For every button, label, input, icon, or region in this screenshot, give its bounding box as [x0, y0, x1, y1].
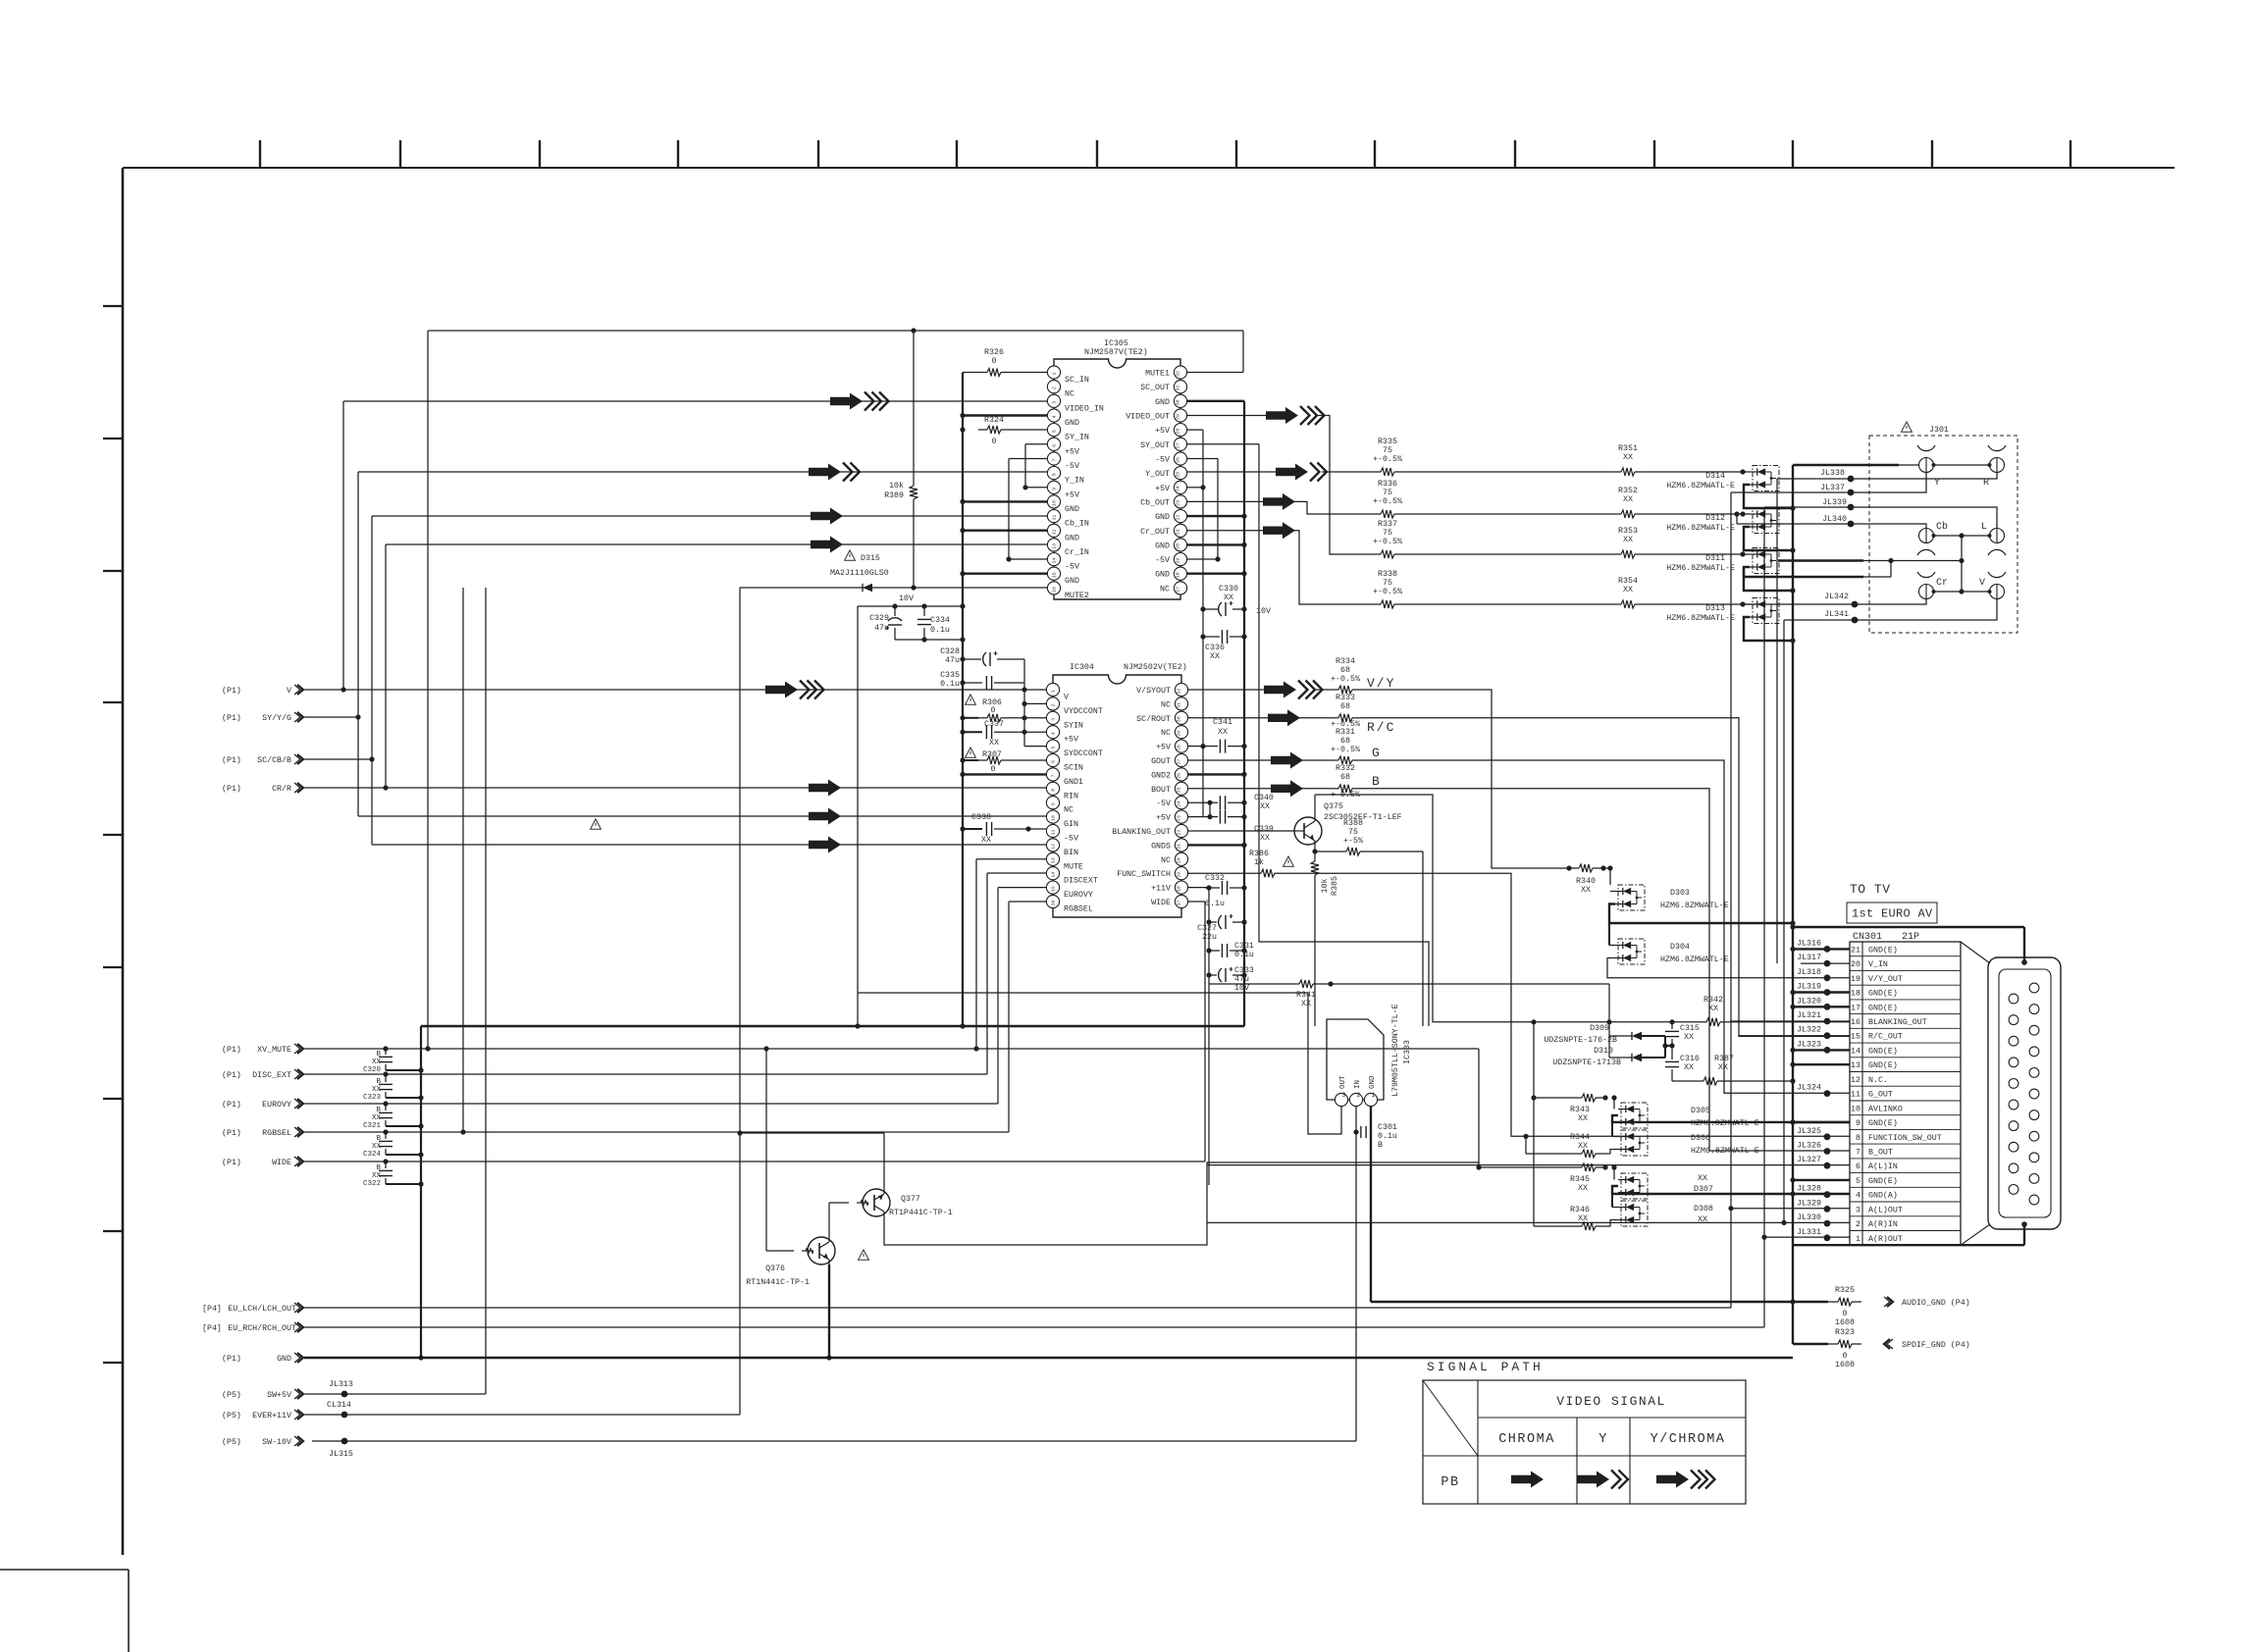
svg-text:V: V	[1064, 694, 1069, 702]
svg-text:Cr_IN: Cr_IN	[1065, 548, 1089, 557]
svg-text:-5V: -5V	[1155, 556, 1170, 565]
svg-text:75: 75	[1383, 489, 1392, 497]
wire pin5 stub	[1024, 746, 1046, 748]
svg-text:15: 15	[1851, 1033, 1860, 1042]
wire to Q377 emitter	[740, 1132, 884, 1134]
svg-text:GND: GND	[1155, 398, 1170, 407]
wire A(L)IN row	[1207, 1164, 1850, 1166]
svg-text:0: 0	[992, 357, 997, 366]
svg-text:L79M05TLL-SONY-TL-E: L79M05TLL-SONY-TL-E	[1391, 1004, 1400, 1097]
resistor R351 XX	[1611, 471, 1621, 473]
svg-text:24: 24	[1176, 486, 1181, 491]
wire IC303 GND	[1370, 1107, 1372, 1302]
wire pin25 Y_OUT	[1187, 471, 1276, 473]
svg-text:JL326: JL326	[1797, 1142, 1821, 1151]
wire pin26 -5V	[1187, 458, 1218, 460]
node JL324	[1824, 1090, 1831, 1097]
node JL317	[1824, 960, 1831, 967]
svg-text:D314: D314	[1705, 472, 1725, 481]
svg-text:R346: R346	[1570, 1206, 1590, 1214]
svg-text:0: 0	[1843, 1352, 1848, 1361]
svg-text:R325: R325	[1835, 1286, 1855, 1295]
resistor R388 75	[1315, 851, 1336, 852]
svg-text:(P1): (P1)	[222, 1070, 241, 1080]
svg-text:C330: C330	[1219, 585, 1238, 594]
svg-text:68: 68	[1340, 737, 1350, 746]
port SPDIF_GND (P4)	[1887, 1339, 1893, 1349]
wire G cont	[1299, 759, 1329, 761]
svg-text:6: 6	[1856, 1162, 1860, 1171]
svg-text:B: B	[376, 1078, 381, 1086]
svg-text:MA2J1110GLS0: MA2J1110GLS0	[830, 569, 889, 578]
node CL314	[341, 1412, 348, 1419]
svg-text:R342: R342	[1703, 996, 1723, 1005]
svg-text:V/Y: V/Y	[1367, 676, 1395, 691]
node JL340 tap	[1734, 511, 1739, 516]
wire R340 out	[1602, 867, 1610, 869]
wire pin24 -5V stub	[1187, 801, 1210, 803]
node R345 feed	[1476, 1164, 1481, 1169]
wire D311 top	[1743, 553, 1750, 555]
svg-text:SPDIF_GND (P4): SPDIF_GND (P4)	[1902, 1340, 1970, 1350]
svg-text:16: 16	[1051, 901, 1057, 906]
svg-text:+11V: +11V	[1151, 885, 1171, 894]
wire R343 to D305	[1613, 1098, 1615, 1110]
svg-text:NC: NC	[1160, 585, 1170, 594]
svg-text:75: 75	[1348, 828, 1358, 837]
svg-text:1k: 1k	[1254, 857, 1264, 867]
arrow video out	[1266, 407, 1298, 424]
svg-text:68: 68	[1340, 773, 1350, 782]
wire MUTE1 riser	[1242, 331, 1244, 373]
node JL325	[1824, 1133, 1831, 1140]
svg-text:+-0.5%: +-0.5%	[1331, 675, 1360, 684]
resistor R326 0	[978, 372, 987, 374]
svg-text:24: 24	[1177, 801, 1182, 807]
wire pin28 +5V	[1187, 429, 1203, 431]
svg-text:N.C.: N.C.	[1868, 1076, 1888, 1085]
svg-text:(P5): (P5)	[222, 1390, 241, 1400]
node R354 junction	[1740, 601, 1745, 606]
wire R/C cont	[1296, 717, 1329, 719]
capacitor C339 XX	[1210, 816, 1218, 818]
svg-text:20: 20	[1851, 960, 1860, 969]
svg-text:+-0.5%: +-0.5%	[1373, 497, 1402, 506]
svg-text:13: 13	[1851, 1061, 1860, 1070]
svg-text:27: 27	[1176, 442, 1181, 448]
wire MUTE1 to pin32	[1187, 372, 1243, 374]
node JL340	[1848, 521, 1855, 528]
svg-text:GND(E): GND(E)	[1868, 945, 1898, 955]
resistor R323 0 1608	[1828, 1343, 1838, 1345]
node D312 gnd	[1790, 547, 1795, 552]
wire blanking drop	[1315, 795, 1697, 1022]
svg-text:NC: NC	[1161, 856, 1171, 865]
svg-text:+5V: +5V	[1155, 427, 1170, 436]
arrow BOUT	[1271, 780, 1303, 797]
svg-text:14: 14	[1051, 872, 1057, 878]
diode D313 HZM6.8ZMWATL-E	[1753, 598, 1779, 624]
wire D312 bottom	[1744, 527, 1793, 550]
svg-text:(P1): (P1)	[222, 713, 241, 723]
arrow SC/ROUT	[1268, 709, 1300, 726]
node D313 gnd	[1790, 638, 1795, 643]
svg-text:R340: R340	[1576, 877, 1596, 886]
svg-text:R324: R324	[984, 416, 1004, 425]
wire Y_IN row	[358, 471, 1047, 473]
svg-text:11: 11	[1851, 1091, 1860, 1100]
svg-text:3: 3	[1856, 1206, 1860, 1214]
wire pin18 GND	[1187, 573, 1244, 575]
svg-text:+-0.5%: +-0.5%	[1373, 455, 1402, 464]
wire R351 out	[1645, 471, 1743, 473]
arrow R signal	[809, 780, 841, 797]
svg-text:Cb_IN: Cb_IN	[1065, 519, 1089, 529]
svg-text:(P1): (P1)	[222, 1045, 241, 1055]
svg-text:17: 17	[1177, 901, 1182, 906]
svg-text:FUNC_SWITCH: FUNC_SWITCH	[1117, 870, 1171, 879]
wire D309 stub	[1608, 1022, 1610, 1058]
resistor R354 XX	[1611, 603, 1621, 605]
node JL337	[1848, 490, 1855, 496]
wire vertical x495	[485, 588, 487, 1394]
wire CR vertical	[385, 544, 387, 788]
wire pin23 +5V stub	[1187, 816, 1210, 818]
wire CN301 row5 gnd	[1793, 1179, 1850, 1181]
svg-text:GND: GND	[1155, 571, 1170, 580]
svg-text:10k: 10k	[1320, 879, 1330, 894]
transistor Q376 RT1N441C-TP-1	[808, 1237, 835, 1265]
node JL320	[1824, 1004, 1831, 1010]
svg-text:HZM6.8ZMWATL-E: HZM6.8ZMWATL-E	[1666, 482, 1735, 490]
capacitor C328 47u	[963, 658, 981, 660]
capacitor C320	[385, 1049, 387, 1055]
wire +11V drop	[1208, 888, 1210, 1185]
svg-text:19: 19	[1177, 872, 1182, 878]
wire bus to R307	[963, 759, 978, 761]
wire Cr_IN row	[386, 543, 1047, 545]
capacitor C316 XX	[1671, 1046, 1673, 1059]
arrow y/chroma legend	[1656, 1471, 1689, 1488]
diode D305 HZM6.8ZMWATL-E	[1621, 1103, 1648, 1128]
resistor R343 XX	[1572, 1097, 1582, 1099]
svg-text:+5V: +5V	[1156, 744, 1171, 752]
svg-text:4: 4	[1051, 732, 1057, 735]
svg-text:XX: XX	[1578, 1214, 1588, 1223]
svg-text:+-0.5%: +-0.5%	[1373, 538, 1402, 546]
node JL327	[1824, 1162, 1831, 1169]
svg-text:JL317: JL317	[1797, 954, 1821, 962]
svg-text:C337: C337	[984, 720, 1004, 729]
capacitor C336 XX	[1203, 636, 1220, 638]
wire EUROVY row	[304, 1103, 998, 1105]
node JL315	[341, 1438, 348, 1445]
capacitor C327 22u	[1209, 921, 1217, 923]
svg-text:JL318: JL318	[1797, 968, 1821, 977]
svg-text:30: 30	[1175, 399, 1180, 405]
wire R341 out	[1323, 983, 1609, 985]
svg-text:SIGNAL PATH: SIGNAL PATH	[1427, 1360, 1544, 1374]
svg-text:V: V	[287, 687, 291, 696]
node CR junction	[383, 785, 388, 790]
svg-text:23: 23	[1175, 500, 1180, 506]
svg-text:A(L)OUT: A(L)OUT	[1868, 1205, 1903, 1214]
svg-text:31: 31	[1177, 702, 1182, 708]
node D311 gnd	[1790, 588, 1795, 593]
svg-text:C329: C329	[869, 614, 889, 623]
wire CrV to jack	[1863, 560, 1962, 562]
svg-text:JL329: JL329	[1797, 1199, 1821, 1208]
wire vertical x472	[462, 588, 464, 1132]
svg-text:EUROVY: EUROVY	[262, 1101, 291, 1110]
svg-text:VIDEO SIGNAL: VIDEO SIGNAL	[1556, 1394, 1666, 1409]
wire WIDE pin17 stub	[1187, 901, 1205, 903]
svg-text:RIN: RIN	[1064, 792, 1078, 800]
node cap C323 tap	[383, 1071, 388, 1076]
wire R343 feed drop	[1533, 1022, 1535, 1098]
svg-text:B_OUT: B_OUT	[1868, 1149, 1893, 1158]
svg-text:Y_OUT: Y_OUT	[1145, 470, 1170, 479]
svg-text:JL324: JL324	[1797, 1084, 1821, 1093]
svg-text:GND: GND	[1065, 534, 1079, 542]
svg-text:JL321: JL321	[1797, 1011, 1821, 1020]
svg-text:JL323: JL323	[1797, 1040, 1821, 1049]
svg-text:XX: XX	[372, 1086, 382, 1094]
arrow V/CHROMA signal	[765, 682, 798, 698]
svg-text:+-5%: +-5%	[1343, 837, 1363, 846]
svg-text:22: 22	[1177, 830, 1182, 836]
svg-text:JL330: JL330	[1797, 1213, 1821, 1222]
svg-text:SY_OUT: SY_OUT	[1140, 441, 1170, 450]
node JL323	[1824, 1047, 1831, 1054]
wire pin26 GND2	[1187, 773, 1244, 775]
svg-text:16: 16	[1052, 587, 1058, 593]
svg-text:GND: GND	[1155, 542, 1170, 550]
wire pin29 VIDEO_OUT	[1187, 415, 1266, 417]
wire GIN row	[358, 815, 1046, 817]
resistor R345 XX	[1572, 1166, 1582, 1168]
wire D309-D310 join	[1664, 1036, 1666, 1058]
svg-text:75: 75	[1383, 446, 1392, 455]
capacitor C333 47u	[1209, 974, 1217, 976]
wire D306 top	[1611, 1122, 1613, 1137]
svg-text:R332: R332	[1336, 764, 1355, 773]
wire bus to R326	[963, 372, 978, 374]
node JL328	[1824, 1191, 1831, 1198]
svg-text:XX: XX	[1623, 536, 1633, 544]
wire Cb bend	[1291, 501, 1371, 514]
node JL318	[1824, 974, 1831, 981]
svg-text:HZM6.8ZMWATL-E: HZM6.8ZMWATL-E	[1666, 564, 1735, 573]
svg-text:68: 68	[1340, 666, 1350, 675]
wire SW+5V row	[304, 1393, 486, 1395]
svg-text:R345: R345	[1570, 1175, 1590, 1184]
svg-text:CL314: CL314	[327, 1401, 351, 1410]
svg-text:Cb_OUT: Cb_OUT	[1140, 497, 1170, 507]
node V junction	[341, 687, 345, 692]
wire Cr bend	[1291, 531, 1371, 604]
svg-text:C334: C334	[930, 616, 950, 625]
svg-text:XX: XX	[372, 1058, 382, 1066]
wire XV_MUTE drop to R345	[1478, 1049, 1480, 1167]
node Q376 base junction	[763, 1046, 768, 1051]
wire R388 drop	[1422, 852, 1424, 1026]
node JL316	[1824, 946, 1831, 953]
svg-text:IC305: IC305	[1104, 339, 1128, 348]
svg-text:MUTE2: MUTE2	[1065, 592, 1089, 600]
svg-text:R387: R387	[1714, 1055, 1734, 1063]
svg-text:7: 7	[1052, 458, 1058, 461]
svg-text:Cr_OUT: Cr_OUT	[1140, 528, 1170, 537]
svg-text:V/SYOUT: V/SYOUT	[1136, 686, 1171, 696]
capacitor C331 0.1u	[1209, 950, 1220, 952]
resistor R334 68	[1329, 689, 1338, 691]
wire cap bus	[420, 1026, 422, 1358]
wire Q376 emitter down	[828, 1265, 830, 1358]
wire R389 vertical	[913, 331, 915, 476]
svg-text:SW+5V: SW+5V	[267, 1391, 291, 1400]
wire JL337 drop	[1730, 492, 1732, 1308]
svg-text:R352: R352	[1618, 487, 1638, 495]
svg-text:17: 17	[1176, 587, 1181, 593]
wire D311 bottom	[1744, 567, 1793, 591]
wire JL340 drop	[1736, 514, 1738, 524]
svg-text:GND(E): GND(E)	[1868, 1060, 1898, 1070]
arrow Cb signal	[811, 508, 843, 525]
svg-text:XX: XX	[1260, 834, 1270, 843]
wire pin25 BOUT	[1187, 788, 1271, 790]
wire R354 out	[1645, 603, 1743, 605]
wire bus top to Y jack	[1793, 464, 1899, 466]
svg-text:JL313: JL313	[329, 1380, 353, 1389]
svg-text:21: 21	[1177, 844, 1182, 850]
svg-text:J301: J301	[1929, 426, 1949, 435]
svg-text:-5V: -5V	[1064, 835, 1078, 844]
svg-text:+5V: +5V	[1156, 814, 1171, 823]
svg-text:EU_RCH/RCH_OUT: EU_RCH/RCH_OUT	[228, 1323, 296, 1333]
svg-text:B: B	[1372, 774, 1382, 789]
svg-text:JL331: JL331	[1797, 1228, 1821, 1237]
svg-text:JL320: JL320	[1797, 997, 1821, 1006]
svg-text:G_OUT: G_OUT	[1868, 1091, 1893, 1100]
node JL338	[1848, 476, 1855, 483]
node JL330	[1824, 1220, 1831, 1227]
svg-text:SCIN: SCIN	[1064, 764, 1083, 773]
wire Q375 emitter	[1314, 845, 1316, 852]
wire Y-R link	[1934, 464, 1990, 466]
svg-text:+5V: +5V	[1064, 736, 1078, 745]
svg-text:16: 16	[1851, 1018, 1860, 1027]
node cap C321 tap	[383, 1101, 388, 1106]
node cap C324 tap	[383, 1129, 388, 1134]
wire R352 out	[1645, 513, 1743, 515]
wire D303 top stub	[1610, 891, 1615, 893]
svg-text:SW-10V: SW-10V	[262, 1438, 291, 1447]
wire SC vertical	[371, 516, 373, 845]
svg-text:V/Y_OUT: V/Y_OUT	[1868, 974, 1903, 984]
svg-text:-5V: -5V	[1065, 563, 1079, 572]
wire gnd collect	[421, 1025, 1244, 1027]
arrow y legend	[1577, 1471, 1609, 1488]
wire CrV join	[1863, 576, 1891, 578]
svg-text:0: 0	[991, 706, 996, 715]
svg-text:20: 20	[1177, 857, 1182, 863]
svg-text:RGBSEL: RGBSEL	[262, 1129, 291, 1138]
svg-text:FUNCTION_SW_OUT: FUNCTION_SW_OUT	[1868, 1134, 1942, 1143]
wire video out bend	[1315, 416, 1371, 555]
svg-text:C301: C301	[1378, 1123, 1397, 1132]
wire pin14 -5V	[1009, 558, 1047, 560]
wire V vertical	[342, 401, 344, 690]
diode D312 HZM6.8ZMWATL-E	[1753, 508, 1779, 534]
arrow B signal	[809, 837, 841, 853]
svg-text:XX: XX	[1623, 495, 1633, 504]
svg-text:28: 28	[1175, 429, 1180, 435]
svg-text:15: 15	[1051, 886, 1057, 892]
capacitor C322	[385, 1162, 387, 1168]
svg-text:JL327: JL327	[1797, 1156, 1821, 1164]
svg-text:7: 7	[1051, 774, 1057, 777]
svg-text:1608: 1608	[1835, 1361, 1855, 1369]
svg-text:BLANKING_OUT: BLANKING_OUT	[1868, 1018, 1927, 1027]
svg-text:XX: XX	[1578, 1142, 1588, 1151]
wire pin7 -5V	[1009, 458, 1047, 460]
svg-text:XX: XX	[981, 836, 991, 845]
svg-text:-5V: -5V	[1065, 462, 1079, 471]
wire pin21 GNDS	[1187, 844, 1244, 846]
svg-text:+-0.5%: +-0.5%	[1331, 746, 1360, 754]
wire pin18 +11V stub	[1187, 887, 1209, 889]
svg-text:C338: C338	[971, 813, 991, 822]
node JL339	[1848, 504, 1855, 511]
wire SC/CB/B input	[304, 758, 372, 760]
svg-text:18: 18	[1177, 886, 1182, 892]
svg-text:XX: XX	[1718, 1063, 1728, 1072]
svg-text:21P: 21P	[1902, 932, 1919, 943]
svg-text:(P1): (P1)	[222, 784, 241, 794]
svg-text:Y: Y	[1934, 478, 1940, 489]
wire EU_LCH row	[304, 1307, 1731, 1309]
wire zener to caps	[1665, 1045, 1672, 1047]
svg-text:12: 12	[1052, 529, 1058, 535]
node EVER11 branch	[737, 1130, 742, 1135]
svg-text:JL315: JL315	[329, 1450, 353, 1459]
svg-text:SC/CB/B: SC/CB/B	[257, 755, 291, 765]
port AUDIO_GND (P4)	[1884, 1297, 1890, 1307]
wire CrV feed B	[1744, 568, 1863, 578]
wire CN301 row14 gnd	[1793, 1049, 1850, 1051]
wire R324 to pin5	[1010, 429, 1047, 431]
svg-text:D315: D315	[861, 554, 880, 563]
svg-text:XV_MUTE: XV_MUTE	[257, 1046, 291, 1055]
svg-text:(P1): (P1)	[222, 1128, 241, 1138]
svg-text:IC304: IC304	[1070, 663, 1094, 672]
wire GND row	[304, 1357, 1793, 1359]
wire row16 short	[1730, 1020, 1850, 1022]
node D314 gnd	[1790, 505, 1795, 510]
capacitor C301 0.1u	[1360, 1126, 1362, 1138]
jack Y	[1919, 458, 1934, 473]
wire V input to IC304 pin1	[304, 689, 1046, 691]
wire R335 to R35x	[1404, 471, 1611, 473]
svg-text:(P5): (P5)	[222, 1411, 241, 1420]
svg-text:3: 3	[1051, 718, 1057, 721]
wire Cb_IN row	[372, 515, 1047, 517]
svg-text:0.1u: 0.1u	[1378, 1132, 1397, 1141]
wire R343 lead	[1534, 1097, 1572, 1099]
wire D313 bottom	[1744, 617, 1793, 641]
svg-text:SYIN: SYIN	[1064, 721, 1083, 730]
